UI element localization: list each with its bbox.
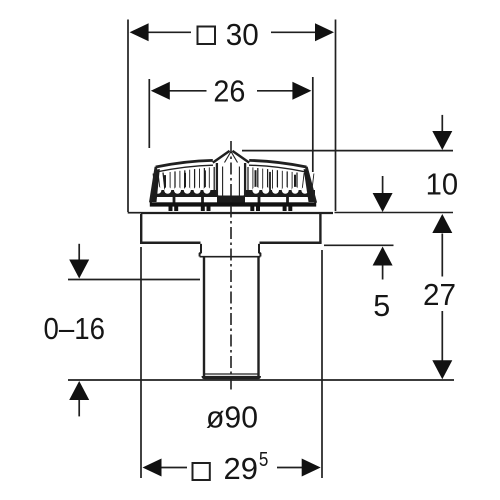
svg-text:5: 5	[259, 449, 269, 471]
svg-text:ø90: ø90	[206, 400, 258, 435]
svg-text:29: 29	[224, 451, 259, 486]
svg-text:10: 10	[426, 166, 459, 201]
svg-text:0–16: 0–16	[44, 311, 106, 346]
svg-text:27: 27	[423, 277, 456, 312]
svg-text:30: 30	[226, 17, 259, 52]
svg-text:5: 5	[373, 288, 390, 323]
svg-text:26: 26	[213, 73, 245, 108]
